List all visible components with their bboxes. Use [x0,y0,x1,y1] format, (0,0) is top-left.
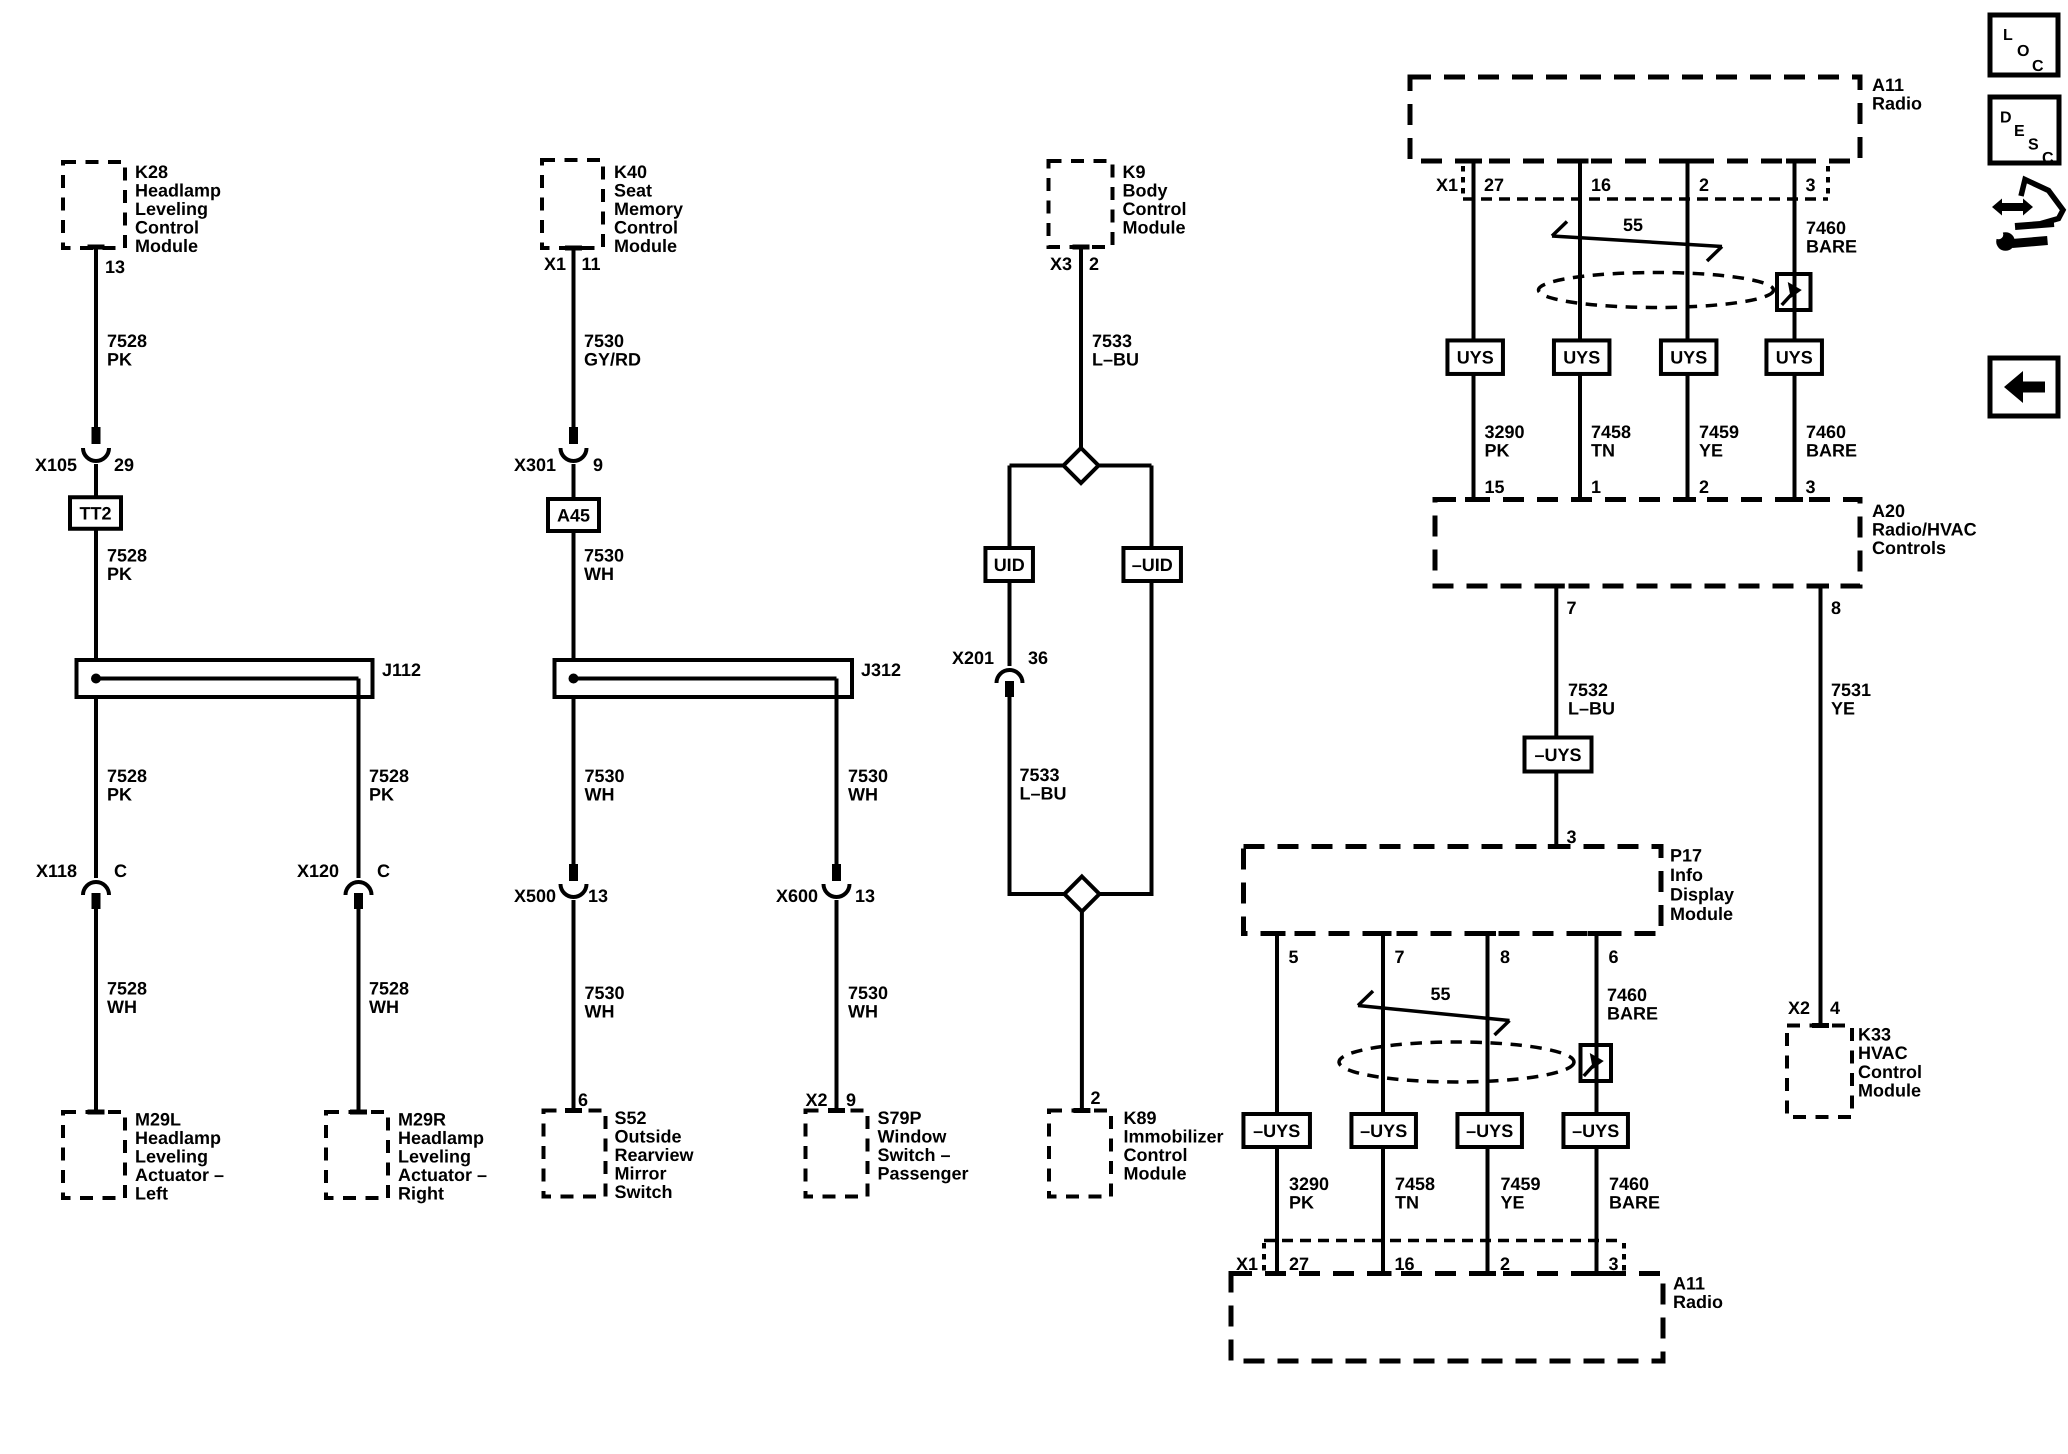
svg-text:55: 55 [1623,215,1643,235]
svg-text:6: 6 [578,1090,588,1110]
svg-text:–UYS: –UYS [1466,1121,1513,1141]
svg-text:7: 7 [1567,598,1577,618]
svg-text:7460: 7460 [1806,422,1846,442]
svg-text:29: 29 [114,455,134,475]
svg-text:J312: J312 [861,660,901,680]
svg-text:7528: 7528 [107,979,147,999]
svg-text:8: 8 [1831,598,1841,618]
svg-text:WH: WH [848,1002,878,1022]
svg-text:Memory: Memory [614,199,683,219]
svg-text:PK: PK [107,350,132,370]
svg-text:Controls: Controls [1872,538,1946,558]
svg-text:2: 2 [1699,175,1709,195]
svg-text:7528: 7528 [107,546,147,566]
svg-text:BARE: BARE [1607,1004,1658,1024]
svg-text:X105: X105 [35,455,77,475]
svg-text:7459: 7459 [1699,422,1739,442]
svg-text:P17: P17 [1670,846,1702,866]
svg-text:L: L [2003,27,2013,44]
svg-text:Module: Module [1124,1164,1187,1184]
svg-text:Control: Control [1858,1062,1922,1082]
svg-text:GY/RD: GY/RD [584,350,641,370]
svg-text:7530: 7530 [584,546,624,566]
svg-text:Info: Info [1670,865,1703,885]
svg-text:7530: 7530 [585,766,625,786]
svg-text:X201: X201 [952,648,994,668]
svg-text:55: 55 [1430,984,1450,1004]
svg-text:HVAC: HVAC [1858,1043,1908,1063]
svg-text:Module: Module [1670,904,1733,924]
svg-text:YE: YE [1699,441,1723,461]
svg-text:S79P: S79P [878,1108,922,1128]
svg-text:2: 2 [1091,1088,1101,1108]
svg-text:K33: K33 [1858,1025,1891,1045]
svg-text:7460: 7460 [1607,985,1647,1005]
svg-text:X301: X301 [514,455,556,475]
svg-text:Window: Window [878,1127,948,1147]
svg-text:Module: Module [135,236,198,256]
svg-text:S: S [2028,137,2039,154]
svg-text:7460: 7460 [1609,1174,1649,1194]
svg-text:7458: 7458 [1591,422,1631,442]
svg-text:PK: PK [107,785,132,805]
svg-text:S52: S52 [615,1108,647,1128]
svg-text:7530: 7530 [585,983,625,1003]
svg-text:Actuator –: Actuator – [398,1165,487,1185]
svg-text:2: 2 [1699,477,1709,497]
svg-text:Control: Control [1124,1145,1188,1165]
svg-text:Seat: Seat [614,181,652,201]
svg-text:M29L: M29L [135,1110,181,1130]
svg-text:Module: Module [1123,218,1186,238]
svg-text:X3: X3 [1050,254,1072,274]
svg-text:PK: PK [107,564,132,584]
svg-text:O: O [2017,43,2029,60]
svg-text:Radio/HVAC: Radio/HVAC [1872,520,1977,540]
svg-text:BARE: BARE [1806,441,1857,461]
svg-text:2: 2 [1089,254,1099,274]
svg-text:36: 36 [1028,648,1048,668]
svg-text:8: 8 [1500,947,1510,967]
svg-text:YE: YE [1501,1193,1525,1213]
svg-text:X500: X500 [514,886,556,906]
svg-text:Left: Left [135,1184,168,1204]
svg-text:WH: WH [369,997,399,1017]
svg-text:Headlamp: Headlamp [135,1128,221,1148]
svg-text:Right: Right [398,1184,444,1204]
svg-text:UYS: UYS [1563,348,1600,368]
svg-text:Actuator –: Actuator – [135,1165,224,1185]
svg-text:Leveling: Leveling [135,1147,208,1167]
svg-text:Switch –: Switch – [878,1145,951,1165]
svg-text:3290: 3290 [1289,1174,1329,1194]
svg-text:J112: J112 [382,660,421,680]
svg-text:–UID: –UID [1132,555,1173,575]
svg-text:9: 9 [846,1090,856,1110]
svg-text:Immobilizer: Immobilizer [1124,1127,1224,1147]
svg-text:D: D [2000,110,2012,127]
svg-text:Passenger: Passenger [878,1164,969,1184]
svg-text:7528: 7528 [107,766,147,786]
svg-text:–UYS: –UYS [1534,745,1581,765]
svg-text:1: 1 [1591,477,1601,497]
svg-text:13: 13 [855,886,875,906]
svg-text:7530: 7530 [584,331,624,351]
svg-text:M29R: M29R [398,1110,446,1130]
svg-text:C: C [377,861,390,881]
svg-text:A20: A20 [1872,501,1905,521]
svg-text:PK: PK [1485,441,1510,461]
svg-text:4: 4 [1830,998,1840,1018]
svg-text:7528: 7528 [369,979,409,999]
svg-text:Headlamp: Headlamp [135,181,221,201]
svg-text:7458: 7458 [1395,1174,1435,1194]
svg-text:K9: K9 [1123,162,1146,182]
svg-text:7459: 7459 [1501,1174,1541,1194]
svg-text:UYS: UYS [1670,348,1707,368]
svg-text:Body: Body [1123,181,1168,201]
svg-text:WH: WH [585,1002,615,1022]
svg-text:Control: Control [614,218,678,238]
svg-text:7533: 7533 [1020,765,1060,785]
svg-text:A11: A11 [1673,1274,1705,1294]
svg-text:–UYS: –UYS [1572,1121,1619,1141]
svg-text:PK: PK [1289,1193,1314,1213]
svg-text:Mirror: Mirror [615,1164,667,1184]
svg-text:Outside: Outside [615,1127,682,1147]
svg-text:7533: 7533 [1092,331,1132,351]
svg-text:Module: Module [1858,1081,1921,1101]
svg-text:7531: 7531 [1831,680,1871,700]
svg-text:Radio: Radio [1673,1292,1723,1312]
svg-text:7528: 7528 [369,766,409,786]
svg-text:15: 15 [1485,477,1505,497]
svg-text:5: 5 [1289,947,1299,967]
svg-text:7528: 7528 [107,331,147,351]
svg-text:7530: 7530 [848,766,888,786]
svg-text:L–BU: L–BU [1020,784,1067,804]
svg-text:3: 3 [1806,175,1816,195]
svg-text:K89: K89 [1124,1108,1157,1128]
svg-text:WH: WH [107,997,137,1017]
svg-text:7530: 7530 [848,983,888,1003]
svg-text:X2: X2 [805,1090,827,1110]
svg-text:TN: TN [1591,441,1615,461]
svg-text:7532: 7532 [1568,680,1608,700]
svg-text:13: 13 [588,886,608,906]
svg-text:BARE: BARE [1609,1193,1660,1213]
svg-text:PK: PK [369,785,394,805]
svg-text:Display: Display [1670,885,1734,905]
svg-text:3290: 3290 [1485,422,1525,442]
svg-text:TT2: TT2 [79,504,111,524]
svg-text:X600: X600 [776,886,818,906]
svg-text:X120: X120 [297,861,339,881]
svg-text:Control: Control [135,218,199,238]
svg-text:3: 3 [1806,477,1816,497]
svg-text:TN: TN [1395,1193,1419,1213]
svg-text:C: C [114,861,127,881]
svg-text:7460: 7460 [1806,218,1846,238]
svg-text:A11: A11 [1872,75,1904,95]
svg-text:K28: K28 [135,162,168,182]
svg-text:X1: X1 [544,254,566,274]
svg-text:Switch: Switch [615,1182,673,1202]
svg-text:UYS: UYS [1457,348,1494,368]
svg-text:A45: A45 [557,506,590,526]
svg-text:–UYS: –UYS [1253,1121,1300,1141]
svg-text:BARE: BARE [1806,237,1857,257]
svg-text:X2: X2 [1788,998,1810,1018]
svg-text:Leveling: Leveling [135,199,208,219]
svg-text:6: 6 [1609,947,1619,967]
svg-text:7: 7 [1395,947,1405,967]
svg-text:L–BU: L–BU [1092,350,1139,370]
svg-text:K40: K40 [614,162,647,182]
svg-text:WH: WH [848,785,878,805]
svg-text:C: C [2032,58,2044,75]
svg-text:16: 16 [1591,175,1611,195]
svg-text:YE: YE [1831,699,1855,719]
svg-text:WH: WH [585,785,615,805]
svg-text:9: 9 [593,455,603,475]
svg-text:X1: X1 [1436,175,1458,195]
svg-text:Module: Module [614,236,677,256]
svg-text:11: 11 [582,254,601,274]
svg-text:L–BU: L–BU [1568,699,1615,719]
svg-text:WH: WH [584,564,614,584]
svg-text:E: E [2014,123,2025,140]
svg-text:Radio: Radio [1872,94,1922,114]
svg-text:Control: Control [1123,199,1187,219]
svg-text:UYS: UYS [1776,348,1813,368]
svg-text:Rearview: Rearview [615,1145,695,1165]
svg-text:–UYS: –UYS [1360,1121,1407,1141]
svg-text:Headlamp: Headlamp [398,1128,484,1148]
svg-text:13: 13 [105,257,125,277]
svg-text:C: C [2042,150,2054,167]
svg-text:Leveling: Leveling [398,1147,471,1167]
svg-text:X118: X118 [36,861,77,881]
svg-text:27: 27 [1484,175,1504,195]
svg-text:UID: UID [994,555,1025,575]
